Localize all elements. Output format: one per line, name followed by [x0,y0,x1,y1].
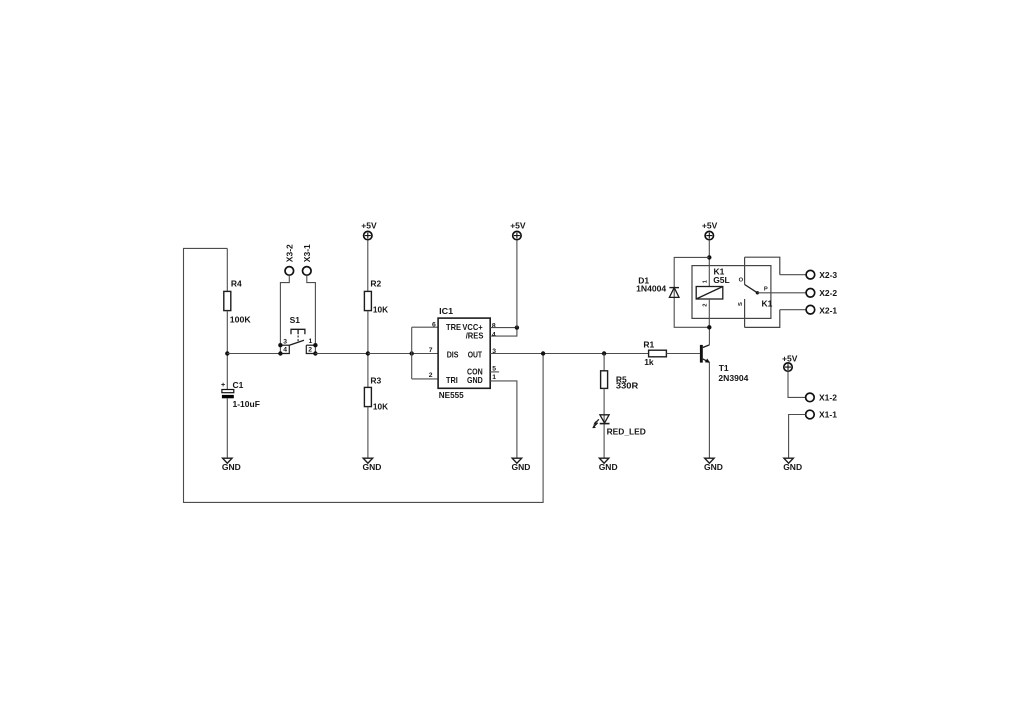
node junction pin8/+5V [515,325,519,329]
wire pin 8 stub [490,327,517,329]
ground GND (C1) [222,458,241,472]
svg-text:X3-2: X3-2 [284,244,294,262]
wire R4 top lead [226,248,228,291]
node junction coil top [707,255,711,259]
svg-text:IC1: IC1 [439,306,453,316]
wire +5V down to coil node [708,240,710,287]
wire TRI stub pin 2 [412,378,438,380]
wire D1 branch [674,257,709,327]
relay coil [696,279,723,307]
svg-text:7: 7 [429,347,433,354]
wire emitter down to ground [708,362,710,458]
resistor R1 [649,350,667,357]
svg-text:+5V: +5V [510,221,526,231]
svg-text:2: 2 [703,304,709,307]
left vertical link [279,345,281,353]
svg-text:R1: R1 [643,340,654,350]
connector X2-2 [806,289,815,298]
wire OUT to R1 [490,353,648,355]
svg-text:1N4004: 1N4004 [636,283,666,293]
ground GND (T1) [704,458,723,472]
wire to X2-1 [780,309,806,311]
node junction OUT/feedback [541,351,545,355]
svg-text:R3: R3 [370,375,381,385]
svg-text:1-10uF: 1-10uF [233,399,260,409]
svg-text:2: 2 [429,372,433,379]
wire +5V to X1-2 [788,371,806,397]
capacitor C1 [221,380,260,409]
svg-text:GND: GND [512,462,531,472]
svg-text:2: 2 [308,347,312,354]
wire X1-1 to ground [789,415,806,459]
relay contact S lead [744,299,746,327]
svg-text:S: S [738,302,744,306]
ground GND (X1) [783,458,802,472]
svg-text:X2-3: X2-3 [819,270,837,280]
resistor R2 [364,291,371,310]
pin 1 stub [306,344,315,346]
svg-text:X3-1: X3-1 [302,244,312,262]
svg-text:GND: GND [599,462,618,472]
svg-text:R4: R4 [231,279,242,289]
resistor R3 [364,387,371,406]
svg-text:6: 6 [432,322,436,329]
svg-text:GND: GND [467,375,483,385]
node junction R4/C1/S1 [225,351,229,355]
node junction at TRE/TRI tie [410,351,414,355]
relay contact O lead [744,257,746,284]
svg-text:1: 1 [492,374,496,381]
actuator dashed link [297,336,299,342]
svg-text:+5V: +5V [702,221,718,231]
resistor R4 [224,291,231,310]
svg-text:X2-2: X2-2 [819,288,837,298]
node junction R5 branch [602,351,606,355]
connector X2-3 [806,270,815,279]
wire R3 to ground [367,407,369,459]
svg-text:100K: 100K [230,315,252,325]
svg-text:X2-1: X2-1 [819,306,837,316]
LED RED_LED [592,415,646,437]
svg-text:330R: 330R [616,381,638,391]
wire feedback loop from OUT down-around to R4 top [184,248,544,502]
connector X3-1 [302,244,316,345]
svg-text:4: 4 [283,347,287,354]
right vertical link [314,345,316,353]
svg-text:GND: GND [363,462,382,472]
supply +5V (R2) [361,221,377,240]
svg-text:RED_LED: RED_LED [607,427,646,437]
junction dots S1 [278,343,282,347]
wire X3-2 to S1 pin3 [280,275,289,345]
svg-text:8: 8 [492,322,496,329]
svg-text:OUT: OUT [468,349,483,359]
wire R5 branch down [603,354,605,371]
svg-text:1: 1 [309,338,313,345]
connector X3-2 [280,244,294,345]
pin 2/1 internal link [306,345,315,353]
svg-text:NE555: NE555 [439,390,464,400]
ground GND (IC1 pin1) [512,458,531,472]
wire collector up to relay [708,327,710,345]
transistor T1 2N3904 [700,345,749,383]
svg-text:S1: S1 [290,315,301,325]
wire node to IC (DIS) [368,353,438,355]
svg-text:K1: K1 [762,299,773,309]
connector X1-2 [806,393,815,402]
wire +5V to R2 [367,240,369,292]
wire X3-1 to S1 pin1 [307,275,316,345]
wire node to S1 [227,353,280,355]
supply +5V (X1) [782,353,798,371]
blade [289,340,304,345]
svg-text:GND: GND [222,462,241,472]
wire R4 to node [226,311,228,390]
svg-text:10K: 10K [373,401,389,411]
wire to X2-3 [780,274,806,276]
svg-text:X1-1: X1-1 [819,410,837,420]
svg-text:3: 3 [283,338,287,345]
node junction coil bottom / collector [707,325,711,329]
wire R5 to LED to ground [603,388,605,458]
relay K1 coil box [692,266,771,319]
wire coil bottom to node [708,299,710,327]
supply +5V (relay) [702,221,718,240]
svg-text:10K: 10K [373,305,389,315]
emission arrows [594,419,599,427]
svg-text:GND: GND [704,462,723,472]
wire C1 to ground [226,398,228,458]
svg-text:/RES: /RES [466,331,484,341]
wire +5V down to pin8 [516,240,518,328]
op-amp/timer IC1 NE555 [429,306,497,400]
svg-text:TRI: TRI [446,375,458,385]
svg-text:4: 4 [492,331,496,338]
supply +5V (IC1) [510,221,526,240]
node junction R2/R3/main [366,351,370,355]
svg-text:P: P [764,287,768,293]
svg-text:X1-2: X1-2 [819,393,837,403]
relay contact blade [745,285,758,293]
pin 3 stub [280,344,289,346]
diode D1 1N4004 [636,275,679,297]
svg-text:T1: T1 [719,363,729,373]
svg-text:+5V: +5V [361,221,377,231]
switch S1 [278,315,317,355]
actuator bracket [291,329,305,334]
svg-text:+5V: +5V [782,353,798,363]
connector X2-1 [806,305,815,314]
svg-text:G5L: G5L [713,275,730,285]
wire pin 4 jog [490,328,517,337]
svg-text:TRE: TRE [446,322,461,332]
wire TRE-TRI tie vertical [411,327,413,379]
relay outer box bottom [745,310,780,328]
ground GND (R3) [363,458,382,472]
wire P to X2-2 [757,292,806,294]
wire S1 to R2/R3 node [315,353,368,355]
svg-text:O: O [739,277,744,283]
svg-text:R2: R2 [370,279,381,289]
connector X1-1 [806,410,815,419]
wire pin 5 stub (CON) [490,371,499,373]
relay outer box top [745,257,780,275]
svg-text:1k: 1k [644,357,654,367]
svg-text:2N3904: 2N3904 [718,373,748,383]
ground GND (LED) [599,458,618,472]
svg-text:1: 1 [703,279,709,283]
svg-text:GND: GND [783,462,802,472]
wire TRE stub pin 6 [412,326,438,328]
wire pin 1 (GND) to ground [490,381,517,458]
wire R1 to T1 base [666,353,700,355]
resistor R5 [601,371,608,389]
svg-text:DIS: DIS [447,349,459,359]
wire R2 to node [367,311,369,388]
pin 4/3 internal link [280,345,289,353]
svg-text:C1: C1 [233,380,244,390]
